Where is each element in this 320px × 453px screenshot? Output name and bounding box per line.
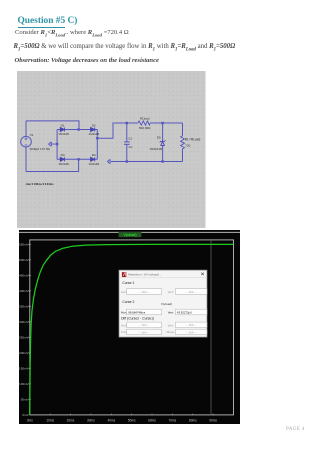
svg-text:V1: V1 (30, 133, 34, 137)
svg-text:720: 720 (185, 144, 190, 148)
trace title V(vload) (118, 232, 140, 237)
svg-text:50ms: 50ms (127, 419, 135, 423)
svg-text:1N4148: 1N4148 (58, 162, 69, 166)
svg-text:Diff (Curse2 - Curse1): Diff (Curse2 - Curse1) (121, 317, 154, 321)
wire bridge right column (96, 130, 98, 160)
cursor 2 vertical line (210, 240, 212, 415)
wire bridge top row (57, 129, 97, 131)
svg-text:300mV: 300mV (19, 320, 30, 324)
svg-text:-- N/A --: -- N/A -- (139, 290, 149, 294)
wire V1 top lead (25, 121, 27, 136)
svg-text:D1: D1 (61, 123, 65, 127)
svg-text:D5: D5 (157, 136, 161, 140)
svg-text:D3: D3 (61, 153, 65, 157)
y axis labels (19, 243, 30, 418)
svg-text:98.684748ms: 98.684748ms (128, 310, 146, 314)
svg-text:V(vload): V(vload) (123, 233, 136, 237)
ground right (rotated) (107, 159, 110, 163)
svg-text:350mV: 350mV (19, 305, 30, 309)
wire R1 to load (150, 122, 182, 124)
diode D1 (60, 128, 64, 132)
svg-text:D4: D4 (92, 153, 96, 157)
svg-text:Vert:: Vert: (167, 323, 173, 327)
zener diode D5 (160, 123, 166, 162)
svg-text:50mV: 50mV (20, 398, 29, 402)
svg-text:30ms: 30ms (87, 419, 95, 423)
svg-text:250mV: 250mV (19, 336, 30, 340)
wire bottom rail V1- to bridge (26, 159, 79, 171)
svg-text:60ms: 60ms (148, 419, 156, 423)
x axis labels (26, 419, 217, 423)
wire bridge bottom row (57, 158, 97, 160)
svg-text:Vert:: Vert: (167, 311, 173, 315)
svg-text:43.92272μV: 43.92272μV (176, 310, 191, 314)
resistor R1load (series) (138, 121, 150, 125)
svg-text:70ms: 70ms (168, 419, 176, 423)
svg-text:450mV: 450mV (19, 274, 30, 278)
svg-text:SINE(0 170 50): SINE(0 170 50) (30, 147, 51, 151)
svg-text:500mV: 500mV (19, 258, 30, 262)
svg-text:V(vload): V(vload) (160, 302, 171, 306)
ground left (rotated) (49, 142, 58, 146)
node C (bridge right mid) (96, 137, 98, 139)
svg-text:R1load: R1load (140, 116, 150, 120)
node D (bridge bottom mid) (77, 158, 79, 160)
svg-text:400mV: 400mV (19, 289, 30, 293)
svg-text:0ms: 0ms (26, 419, 32, 423)
svg-text:-- N/A --: -- N/A -- (186, 330, 196, 334)
svg-text:1m: 1m (128, 145, 133, 149)
voltage source V1 (21, 136, 32, 147)
node H (zener bottom) (161, 160, 163, 162)
diode D2 (91, 128, 95, 132)
node G (C1 bottom) (126, 160, 128, 162)
x ticks (50, 414, 213, 415)
svg-text:1N5231B: 1N5231B (150, 147, 163, 151)
svg-text:Waveform: 1/4 v(vload) ..: Waveform: 1/4 v(vload) .. (128, 273, 162, 277)
svg-text:Slope:: Slope: (166, 330, 175, 334)
svg-text:20ms: 20ms (66, 419, 74, 423)
svg-text:.tran 0 100ms 0 0.01ms: .tran 0 100ms 0 0.01ms (25, 182, 54, 186)
svg-text:1N4148: 1N4148 (58, 132, 69, 136)
svg-text:80ms: 80ms (188, 419, 196, 423)
svg-text:-- N/A --: -- N/A -- (186, 290, 196, 294)
svg-text:-- N/A --: -- N/A -- (139, 323, 149, 327)
svg-text:D2: D2 (92, 123, 96, 127)
cursor dialog (119, 270, 207, 337)
wire DC output tap to top rail (97, 123, 138, 138)
wire V1 bottom lead (25, 147, 27, 172)
trace V(vload) (29, 245, 233, 415)
svg-text:-- N/A --: -- N/A -- (139, 330, 149, 334)
wire top rail V1+ to bridge (26, 121, 79, 130)
y ticks (28, 245, 30, 400)
diode D4 (91, 157, 95, 161)
node B (bridge left mid) (56, 143, 58, 145)
svg-text:Curse 1: Curse 1 (122, 281, 134, 285)
svg-text:-- N/A --: -- N/A -- (186, 323, 196, 327)
svg-text:90ms: 90ms (209, 419, 217, 423)
svg-text:40ms: 40ms (107, 419, 115, 423)
svg-text:100mV: 100mV (19, 382, 30, 386)
svg-text:1N4148: 1N4148 (89, 162, 100, 166)
svg-text:550mV: 550mV (19, 243, 30, 247)
svg-text:500.00Ω: 500.00Ω (139, 126, 151, 130)
svg-text:150mV: 150mV (19, 367, 30, 371)
wire bridge left column (56, 130, 58, 160)
node F (zener top) (161, 122, 163, 124)
svg-text:0mV: 0mV (22, 413, 29, 417)
wire output bottom rail (111, 161, 183, 163)
svg-text:RL=RLoad: RL=RLoad (185, 137, 201, 141)
svg-text:Curse 2: Curse 2 (122, 300, 134, 304)
plot grid border (29, 240, 233, 415)
svg-text:200mV: 200mV (19, 351, 30, 355)
svg-text:Vert:: Vert: (167, 290, 173, 294)
svg-text:10ms: 10ms (46, 419, 54, 423)
pane top border (19, 231, 240, 233)
node A (bridge top mid) (77, 128, 79, 130)
svg-text:1N4148: 1N4148 (89, 132, 100, 136)
resistor RL=RLoad (181, 123, 185, 162)
schematic screenshot (17, 71, 206, 228)
svg-text:C1: C1 (128, 137, 132, 141)
waveform screenshot (19, 230, 240, 424)
node E (C1 top) (126, 122, 128, 124)
diode D3 (60, 157, 64, 161)
capacitor C1 (124, 123, 130, 162)
